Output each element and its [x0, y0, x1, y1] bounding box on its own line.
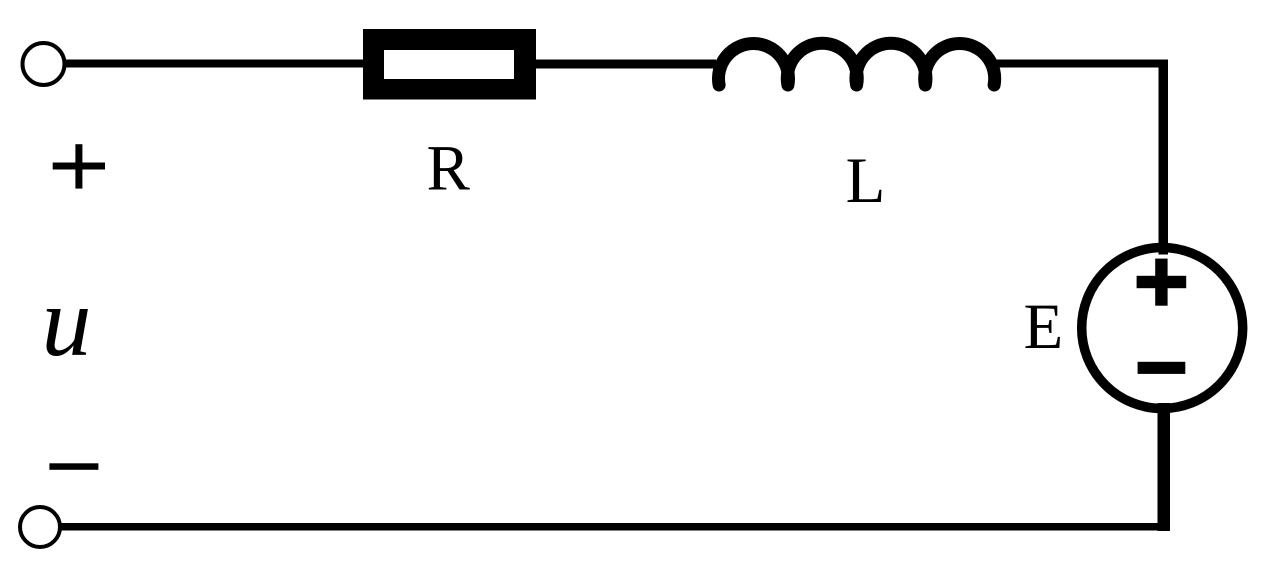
svg-text:u: u: [42, 266, 92, 377]
svg-text:R: R: [427, 133, 471, 205]
svg-text:L: L: [846, 145, 886, 217]
svg-text:E: E: [1024, 291, 1064, 363]
